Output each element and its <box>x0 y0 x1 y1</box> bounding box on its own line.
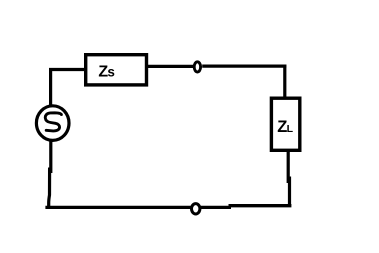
wire: bottom horizontal bus <box>45 206 291 208</box>
source squiggle S <box>45 113 61 131</box>
svg-text:s: s <box>107 65 115 80</box>
wire: top-right corner down to ZL box top <box>283 65 286 98</box>
wire: Zs box right to top node <box>148 65 194 68</box>
wire: source top to top-left corner <box>49 70 52 107</box>
wire: top node to top-right corner <box>202 64 286 67</box>
wire: ZL box bottom down to bottom-right corner <box>288 150 289 206</box>
wire: source bottom to bottom-left corner <box>49 140 51 207</box>
wire: top-left corner to Zs box left <box>49 68 85 71</box>
node: top port terminal <box>194 62 200 72</box>
source U1: AC source circle <box>36 106 69 141</box>
node: bottom port terminal <box>192 204 200 214</box>
load box ZL <box>271 98 299 150</box>
resistor box Zs <box>86 55 147 85</box>
svg-text:L: L <box>287 123 294 135</box>
